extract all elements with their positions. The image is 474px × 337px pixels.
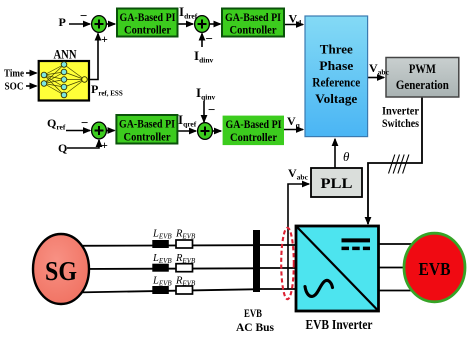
- svg-text:Vq: Vq: [287, 114, 301, 130]
- svg-text:Vabc: Vabc: [288, 166, 309, 182]
- svg-text:−: −: [206, 31, 213, 46]
- svg-text:Voltage: Voltage: [315, 92, 357, 106]
- svg-text:Q: Q: [58, 141, 67, 155]
- svg-text:Generation: Generation: [396, 77, 450, 92]
- svg-text:Iqref: Iqref: [178, 112, 197, 129]
- svg-text:−: −: [81, 115, 88, 130]
- svg-text:Vd: Vd: [289, 12, 303, 28]
- svg-text:Time: Time: [4, 68, 24, 80]
- svg-text:SG: SG: [45, 256, 77, 286]
- svg-text:PLL: PLL: [321, 176, 353, 192]
- svg-text:ANN: ANN: [54, 48, 77, 62]
- svg-text:GA-Based PI: GA-Based PI: [226, 119, 282, 131]
- svg-text:Iqinv: Iqinv: [196, 85, 215, 102]
- svg-text:LEVB: LEVB: [152, 253, 172, 265]
- svg-text:−: −: [208, 102, 215, 117]
- svg-text:LEVB: LEVB: [152, 229, 172, 241]
- svg-text:Pref, ESS: Pref, ESS: [91, 82, 123, 98]
- svg-text:Idref: Idref: [179, 4, 198, 21]
- svg-text:LEVB: LEVB: [152, 276, 172, 288]
- svg-text:−: −: [80, 8, 87, 23]
- svg-text:GA-Based PI: GA-Based PI: [225, 12, 281, 24]
- svg-text:EVB Inverter: EVB Inverter: [306, 317, 373, 332]
- svg-text:Qref: Qref: [47, 116, 66, 132]
- svg-text:SOC: SOC: [5, 81, 24, 93]
- svg-text:GA-Based PI: GA-Based PI: [120, 12, 176, 24]
- svg-text:θ: θ: [343, 149, 350, 164]
- svg-text:Controller: Controller: [230, 132, 277, 144]
- svg-text:Idinv: Idinv: [194, 48, 213, 65]
- svg-text:Three: Three: [320, 43, 353, 57]
- svg-text:+: +: [101, 32, 108, 46]
- svg-text:Controller: Controller: [124, 132, 171, 144]
- svg-text:REVB: REVB: [175, 229, 196, 241]
- svg-text:Reference: Reference: [312, 76, 360, 90]
- svg-text:+: +: [101, 138, 108, 152]
- svg-text:P: P: [59, 15, 66, 29]
- svg-text:EVB: EVB: [419, 259, 451, 279]
- svg-text:AC Bus: AC Bus: [236, 320, 274, 334]
- svg-text:GA-Based PI: GA-Based PI: [119, 119, 175, 131]
- svg-text:REVB: REVB: [175, 276, 196, 288]
- svg-text:Switches: Switches: [382, 116, 419, 130]
- svg-text:Phase: Phase: [319, 59, 353, 73]
- svg-text:PWM: PWM: [409, 61, 436, 76]
- svg-text:Controller: Controller: [230, 25, 277, 37]
- svg-text:EVB: EVB: [244, 306, 262, 320]
- svg-text:REVB: REVB: [175, 253, 196, 265]
- svg-text:Controller: Controller: [124, 25, 171, 37]
